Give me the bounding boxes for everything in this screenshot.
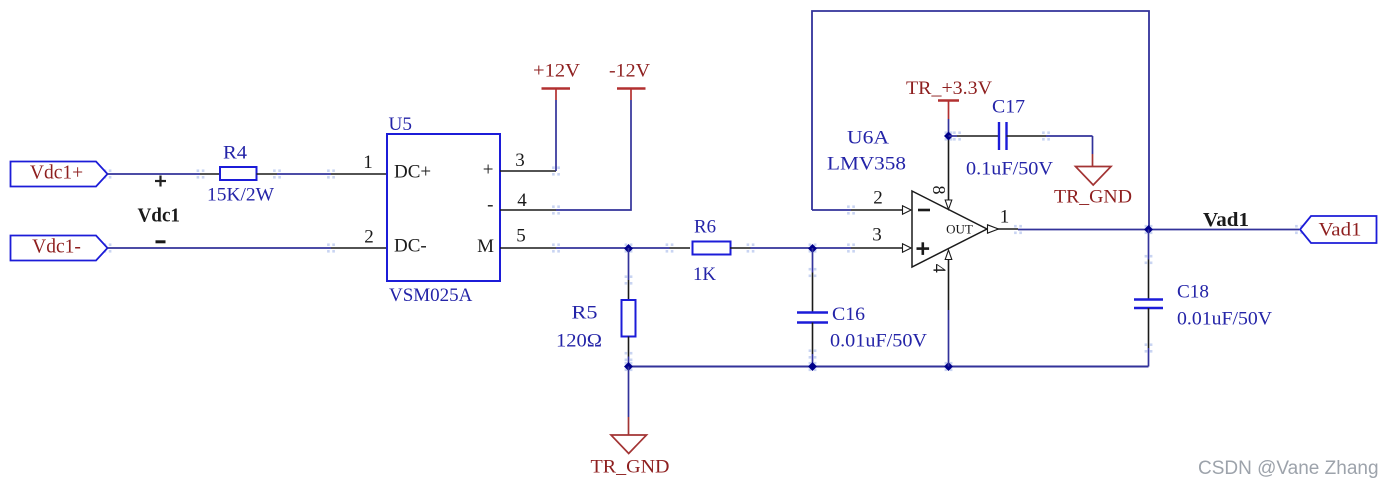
capacitor C18 bbox=[1148, 230, 1150, 260]
svg-text:DC+: DC+ bbox=[394, 162, 431, 183]
svg-text:120Ω: 120Ω bbox=[556, 331, 602, 352]
junction node B bbox=[944, 132, 953, 141]
junction node A bbox=[808, 244, 817, 253]
svg-text:VSM025A: VSM025A bbox=[389, 285, 473, 306]
junction node out bbox=[1144, 225, 1153, 234]
svg-text:0.01uF/50V: 0.01uF/50V bbox=[830, 331, 927, 352]
op-amp pin 8 (V+) bbox=[948, 136, 950, 201]
svg-text:5: 5 bbox=[516, 226, 526, 247]
junction rail-R5 bbox=[624, 362, 633, 371]
svg-text:4: 4 bbox=[930, 264, 950, 273]
svg-text:C18: C18 bbox=[1177, 282, 1209, 303]
power TR_+3.3V bbox=[906, 78, 992, 119]
op-amp minus input mark bbox=[918, 209, 930, 212]
svg-text:3: 3 bbox=[515, 150, 525, 171]
capacitor C16 bbox=[812, 248, 814, 273]
svg-text:-12V: -12V bbox=[609, 61, 650, 82]
wire R6 to node A bbox=[730, 247, 751, 249]
svg-text:DC-: DC- bbox=[394, 236, 427, 257]
U5 pin 3 bbox=[500, 170, 556, 172]
capacitor C17 bbox=[949, 135, 958, 137]
U5 pin 4 bbox=[500, 209, 556, 211]
svg-text:R4: R4 bbox=[223, 143, 248, 164]
svg-text:U6A: U6A bbox=[847, 128, 889, 149]
op-amp plus input mark bbox=[917, 242, 930, 255]
resistor R6 bbox=[693, 242, 731, 255]
svg-text:M: M bbox=[477, 236, 494, 257]
svg-text:1K: 1K bbox=[693, 264, 716, 285]
node label minus bbox=[156, 240, 166, 243]
svg-text:CSDN @Vane Zhang: CSDN @Vane Zhang bbox=[1198, 458, 1379, 479]
svg-text:R5: R5 bbox=[572, 303, 598, 324]
svg-text:R6: R6 bbox=[694, 217, 716, 238]
junction node M bbox=[624, 244, 633, 253]
svg-text:U5: U5 bbox=[389, 114, 413, 135]
wire +12V to pin3 bbox=[555, 100, 557, 171]
svg-text:OUT: OUT bbox=[946, 222, 973, 237]
power +12V bbox=[533, 61, 580, 101]
wire box to op-amp pin2 bbox=[812, 209, 851, 211]
svg-text:TR_GND: TR_GND bbox=[1054, 187, 1132, 208]
U5 pin 2 bbox=[331, 247, 387, 249]
op-amp pin 2 bbox=[851, 209, 902, 211]
ground TR_GND bottom bbox=[591, 367, 670, 478]
svg-text:4: 4 bbox=[517, 190, 527, 211]
svg-text:3: 3 bbox=[872, 225, 882, 246]
port Vad1 bbox=[1300, 216, 1377, 243]
svg-text:1: 1 bbox=[363, 152, 373, 173]
wire op-amp out to port Vad1 bbox=[1018, 229, 1299, 231]
op-amp U6A body bbox=[912, 191, 987, 267]
U5 pin 1 bbox=[331, 173, 387, 175]
wire R4 to pin1 bbox=[257, 173, 278, 175]
op-amp pin 4 (V-) bbox=[945, 250, 952, 260]
svg-text:TR_+3.3V: TR_+3.3V bbox=[906, 78, 992, 99]
port Vdc1+ bbox=[11, 162, 108, 187]
svg-text:Vdc1-: Vdc1- bbox=[32, 237, 81, 258]
svg-text:0.01uF/50V: 0.01uF/50V bbox=[1177, 309, 1272, 330]
wire -12V to pin4 bbox=[556, 100, 631, 210]
feedback loop wire (box) bbox=[812, 11, 1149, 230]
svg-text:LMV358: LMV358 bbox=[827, 154, 906, 175]
svg-text:+: + bbox=[483, 160, 494, 181]
wire pin5 to node M bbox=[556, 247, 670, 249]
resistor R5 bbox=[628, 248, 630, 280]
svg-text:Vdc1+: Vdc1+ bbox=[30, 163, 83, 184]
svg-text:Vad1: Vad1 bbox=[1203, 210, 1249, 231]
ground TR_GND right bbox=[1054, 136, 1132, 208]
svg-text:C17: C17 bbox=[992, 97, 1025, 118]
svg-text:2: 2 bbox=[364, 227, 374, 248]
wire port Vdc1- to pin2 bbox=[108, 247, 332, 249]
svg-text:1: 1 bbox=[1000, 207, 1010, 228]
power -12V bbox=[609, 61, 650, 101]
U5 pin 5 bbox=[500, 247, 556, 249]
junction rail-pin4 bbox=[944, 362, 953, 371]
wire TR_+3.3V to node B bbox=[948, 119, 950, 136]
wire terminal grid marks bbox=[104, 131, 1303, 371]
svg-text:0.1uF/50V: 0.1uF/50V bbox=[966, 159, 1053, 180]
svg-text:Vdc1: Vdc1 bbox=[138, 206, 181, 227]
op-amp pin 3 bbox=[851, 247, 902, 249]
svg-text:8: 8 bbox=[929, 186, 949, 195]
svg-text:-: - bbox=[487, 195, 493, 216]
svg-text:TR_GND: TR_GND bbox=[591, 457, 670, 478]
svg-text:+12V: +12V bbox=[533, 61, 580, 82]
svg-text:15K/2W: 15K/2W bbox=[207, 185, 274, 206]
op-amp output pin 1 bbox=[988, 225, 999, 233]
junction rail-C16 bbox=[808, 362, 817, 371]
svg-text:2: 2 bbox=[873, 188, 883, 209]
sensor U5 body bbox=[387, 134, 500, 281]
node label plus bbox=[155, 176, 166, 187]
ground rail wire bbox=[629, 366, 1149, 368]
wire port Vdc1+ to R4 bbox=[108, 173, 201, 175]
svg-text:Vad1: Vad1 bbox=[1319, 220, 1362, 241]
resistor R4 bbox=[220, 167, 257, 180]
port Vdc1- bbox=[11, 236, 108, 261]
svg-text:C16: C16 bbox=[832, 304, 865, 325]
